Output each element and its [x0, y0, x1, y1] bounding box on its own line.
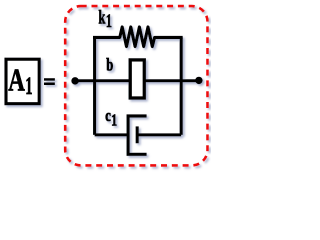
damper b (middle branch rectangle)	[130, 60, 144, 98]
equals sign	[44, 78, 55, 81]
damper c1 piston plate	[136, 126, 139, 143]
wire: right bus vertical	[180, 37, 183, 134]
svg-text:A: A	[8, 63, 25, 98]
dashed boundary box (red rounded rect)	[65, 6, 207, 165]
wire: left node through left bus (middle branch)	[75, 79, 130, 82]
box A1	[6, 59, 39, 103]
svg-text:c: c	[105, 106, 111, 125]
node: left dot	[71, 77, 79, 85]
svg-text:k: k	[99, 7, 106, 28]
wire: right bus to right node	[144, 79, 199, 82]
svg-text:1: 1	[106, 12, 112, 32]
damper c1 cylinder (cup open right)	[128, 116, 147, 154]
svg-text:1: 1	[25, 71, 32, 100]
node: right dot	[195, 77, 202, 84]
bottom branch left wire	[95, 133, 129, 136]
damper c1 piston rod	[137, 133, 181, 136]
svg-text:b: b	[106, 55, 113, 75]
spring k1 (top branch)	[93, 27, 183, 47]
wire: left bus vertical	[93, 37, 96, 134]
svg-text:1: 1	[111, 111, 117, 130]
